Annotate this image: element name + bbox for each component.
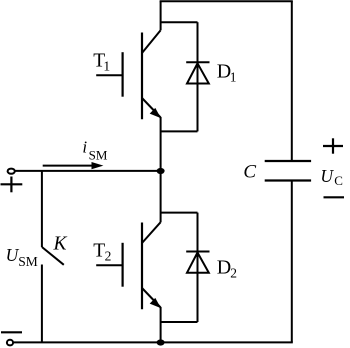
arrow i_SM [43, 162, 104, 169]
switch K blade [42, 247, 64, 265]
transistor T2 [96, 222, 161, 309]
svg-text:2: 2 [105, 249, 112, 264]
minus marker U_SM [1, 331, 22, 333]
svg-text:C: C [243, 162, 256, 183]
svg-text:SM: SM [89, 147, 108, 162]
transistor T1 [96, 30, 161, 119]
wire right vertical lower [291, 181, 293, 343]
svg-text:i: i [82, 138, 87, 157]
wire right vertical upper [291, 1, 293, 161]
wire D1 bottom [161, 130, 198, 132]
node mid junction [157, 168, 165, 174]
diode D2 [186, 252, 209, 273]
svg-text:U: U [320, 166, 334, 186]
minus marker U_C [324, 196, 345, 198]
capacitor C [265, 161, 311, 181]
svg-text:C: C [334, 173, 343, 188]
wire mid stub [160, 117, 162, 222]
svg-text:K: K [53, 234, 68, 255]
wire top bus [160, 0, 293, 2]
wire D2 bottom [161, 321, 198, 323]
svg-text:T: T [93, 240, 105, 261]
wire D2 vertical [197, 213, 199, 322]
wire D1 top [161, 21, 198, 23]
svg-text:SM: SM [18, 254, 38, 269]
diode D1 [186, 62, 209, 83]
svg-text:1: 1 [103, 59, 110, 74]
wire D2 top [161, 212, 198, 214]
wire T1 collector stub [160, 1, 162, 30]
svg-text:2: 2 [230, 265, 237, 280]
svg-text:D: D [217, 257, 231, 279]
wire K branch lower [41, 265, 43, 343]
node bottom junction [157, 339, 165, 345]
wire D1 vertical [197, 22, 199, 131]
wire K branch upper [41, 171, 43, 247]
wire bottom stub [160, 307, 162, 342]
terminal top-left [8, 169, 15, 174]
wire bottom bus [14, 341, 293, 343]
svg-text:1: 1 [230, 69, 237, 84]
plus marker U_SM [1, 177, 23, 193]
terminal bottom-left [7, 340, 13, 346]
plus marker U_C [323, 138, 343, 153]
wire input horizontal [15, 170, 160, 172]
